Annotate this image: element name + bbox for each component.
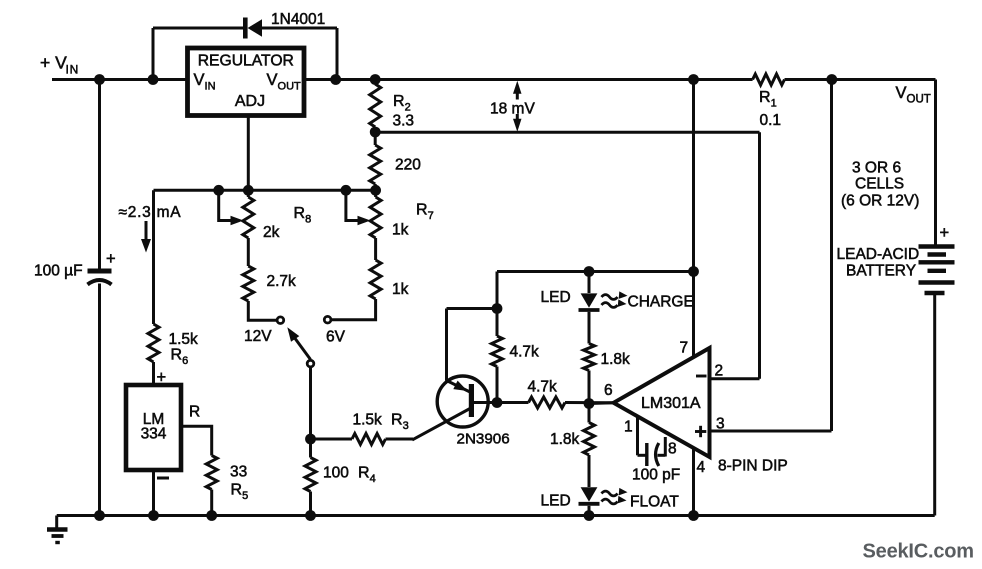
label 3 OR 6 <box>852 160 901 177</box>
ground symbol stub <box>55 516 58 530</box>
junction base / 4.7k pull-up <box>492 397 503 408</box>
wire R8-2.7k link <box>247 238 250 266</box>
battery BT1 plate short 3 <box>925 291 945 295</box>
svg-text:SeekIC.com: SeekIC.com <box>863 541 974 563</box>
wire diode bypass top right segment <box>262 27 338 30</box>
regulator pin VIN label <box>194 71 216 93</box>
svg-text:BATTERY: BATTERY <box>846 262 916 279</box>
svg-text:0.1: 0.1 <box>760 112 782 129</box>
wire pin3 riser <box>830 80 833 432</box>
LED D3 float cathode bar <box>579 502 600 506</box>
label R6 <box>171 347 189 368</box>
svg-text:3.3: 3.3 <box>393 113 415 130</box>
battery BT1 plate long 3 <box>919 280 955 284</box>
wire main rail to battery corner <box>785 78 936 81</box>
wire 1k to 6V terminal <box>332 299 376 320</box>
terminal 12V <box>277 317 284 324</box>
op-amp plus input mark <box>695 426 706 437</box>
label pin 6 <box>604 382 613 399</box>
label R8 <box>294 205 312 226</box>
potentiometer R7 1k element <box>370 190 381 238</box>
capacitor C2 100pF left plate <box>645 443 648 466</box>
svg-text:CELLS: CELLS <box>855 176 904 193</box>
wire LED charge anode link <box>588 272 591 294</box>
svg-text:CHARGE: CHARGE <box>628 294 694 311</box>
svg-text:1k: 1k <box>392 222 409 239</box>
wire 2.7k to 12V terminal <box>248 301 276 320</box>
terminal 6V <box>324 316 331 323</box>
wire regulator ADJ pin drop <box>247 116 250 191</box>
wire LM334 branch upper <box>152 190 155 324</box>
transistor Q1 emitter segment <box>447 381 471 393</box>
label 4.7k base <box>528 379 558 396</box>
svg-text:1.8k: 1.8k <box>550 431 580 448</box>
svg-text:1.5k: 1.5k <box>353 411 383 428</box>
svg-text:1.5k: 1.5k <box>169 331 199 348</box>
wire R5 to ground rail <box>210 490 213 516</box>
potentiometer R8 wiper arm <box>219 190 244 225</box>
wire base resistor to node6 <box>565 401 614 404</box>
resistor 220 element <box>370 145 381 184</box>
junction main rail / diode bypass riser <box>148 74 159 85</box>
svg-text:1N4001: 1N4001 <box>271 11 325 28</box>
capacitor C1 100uF curved plate <box>88 280 112 285</box>
wire battery positive drop <box>934 80 937 247</box>
label CELLS <box>855 176 904 193</box>
node +VIN input terminal label <box>40 53 79 77</box>
wire emitter riser <box>445 309 448 381</box>
dimension arrow 18 mV down <box>513 114 522 132</box>
capacitor C2 100pF right plate <box>656 443 659 466</box>
junction ground rail / left rail <box>94 510 105 521</box>
label 33 <box>230 463 247 480</box>
label LM334 minus pin <box>157 477 169 480</box>
wire diode bypass riser <box>152 28 155 80</box>
label 6V <box>326 329 346 346</box>
svg-text:R: R <box>189 404 200 421</box>
label LED float <box>541 493 571 510</box>
transistor Q1 emitter arrow <box>453 381 467 391</box>
switch SW1 arm <box>287 327 310 359</box>
label 334 <box>141 426 167 443</box>
wire diode bypass right drop <box>336 28 339 80</box>
label 100 pF <box>632 467 680 484</box>
resistor 1.8k upper element <box>584 344 595 371</box>
annotation current arrow <box>141 221 151 253</box>
svg-text:2k: 2k <box>263 224 280 241</box>
svg-text:LED: LED <box>541 493 571 510</box>
svg-text:4.7k: 4.7k <box>528 379 558 396</box>
svg-text:220: 220 <box>395 157 421 174</box>
wire main rail regulator output segment <box>304 78 753 81</box>
wire LED float to ground rail <box>588 506 591 516</box>
junction main rail / pin3 riser <box>826 74 837 85</box>
svg-text:1.8k: 1.8k <box>601 351 631 368</box>
svg-text:100 pF: 100 pF <box>632 467 680 484</box>
wire ground rail <box>57 514 935 517</box>
wire 1.8k lower to LED float <box>588 455 591 487</box>
resistor 2.7k element <box>243 266 254 301</box>
svg-text:8-PIN DIP: 8-PIN DIP <box>718 458 788 475</box>
LED D2 light arrows <box>602 291 628 307</box>
LED D3 float body <box>581 487 598 501</box>
LED D2 charge cathode bar <box>579 308 600 312</box>
resistor R5 33 element <box>206 456 217 490</box>
label 1.8k upper <box>601 351 631 368</box>
label R5 <box>231 482 249 503</box>
LED D3 light arrows <box>602 488 628 504</box>
resistor 1.8k lower element <box>584 423 595 456</box>
svg-text:1k: 1k <box>392 281 409 298</box>
wire Q1 base lead <box>474 401 529 404</box>
svg-text:2N3906: 2N3906 <box>457 431 510 448</box>
label pin 8 <box>668 441 677 458</box>
label 1N4001 <box>271 11 325 28</box>
label 100 uF <box>34 263 83 280</box>
resistor R3 1.5k element <box>352 434 386 445</box>
op-amp minus input mark <box>696 375 707 378</box>
label 3.3 <box>393 113 415 130</box>
svg-text:LED: LED <box>541 289 571 306</box>
wire pin8 stub <box>658 437 666 457</box>
label pin 3 <box>716 416 725 433</box>
resistor R1 0.1 element <box>753 74 785 85</box>
wire pin3 stub <box>710 430 832 433</box>
label 2k <box>263 224 280 241</box>
label 12V <box>244 328 272 345</box>
wire diode bypass top left segment <box>153 27 245 30</box>
current source U2 LM334 box <box>126 385 181 470</box>
label LM334 plus pin <box>157 369 167 387</box>
resistor R2 3.3 element <box>370 84 381 127</box>
wire LM334 R pin <box>181 426 212 455</box>
wire R3 to collector <box>386 409 471 440</box>
junction main rail / V+ riser <box>688 74 699 85</box>
watermark SeekIC.com <box>863 541 974 563</box>
junction pin4 / ground rail <box>688 510 699 521</box>
potentiometer R7 wiper arm <box>346 190 371 225</box>
wire V+ top mid rail <box>497 270 694 273</box>
label BATTERY <box>846 262 916 279</box>
wire 4.7k pull-up upper link <box>496 309 499 337</box>
junction R3/R4 node <box>305 434 316 445</box>
switch SW1 pole terminal <box>307 360 314 367</box>
svg-text:≈2.3 mA: ≈2.3 mA <box>119 204 182 221</box>
regulator U1 box <box>188 48 305 116</box>
wire 18mV sense line <box>375 131 759 134</box>
junction wiper rail / R7 wiper <box>341 185 352 196</box>
junction main rail / left filter-cap rail <box>94 74 105 85</box>
svg-text:4.7k: 4.7k <box>510 344 540 361</box>
wire 1.8k to node6 <box>588 371 591 404</box>
wire left rail upper <box>98 80 101 269</box>
wire switch pole drop <box>309 368 312 439</box>
label pin 2 <box>715 363 724 380</box>
label LM334 R pin <box>189 404 200 421</box>
label 0.1 <box>760 112 782 129</box>
svg-text:FLOAT: FLOAT <box>630 494 679 511</box>
label R3 <box>391 411 409 432</box>
svg-text:LEAD-ACID: LEAD-ACID <box>837 246 920 263</box>
svg-text:ADJ: ADJ <box>235 93 265 110</box>
label LEAD-ACID <box>837 246 920 263</box>
svg-text:IN: IN <box>66 63 80 77</box>
svg-text:12V: 12V <box>244 328 272 345</box>
label 220 <box>395 157 421 174</box>
resistor 1k lower element <box>370 260 381 299</box>
wire pin1 stub <box>638 417 647 455</box>
wire node6 to 1.8k lower <box>588 404 591 423</box>
svg-text:(6 OR 12V): (6 OR 12V) <box>841 193 919 210</box>
diode D1 1N4001 body <box>248 19 262 37</box>
label 1.8k lower <box>550 431 580 448</box>
resistor 4.7k base element <box>529 397 566 408</box>
dimension arrow 18 mV up <box>513 81 522 100</box>
label 6 OR 12V <box>841 193 919 210</box>
junction main rail / R2 top <box>370 74 381 85</box>
annotation current 2.3 mA label <box>119 204 182 221</box>
junction wiper rail / R8 wiper <box>213 185 224 196</box>
wire node6 to op-amp output <box>589 401 614 405</box>
label 1k upper <box>392 222 409 239</box>
junction V+ riser / top mid rail <box>688 266 699 277</box>
junction wiper rail / ADJ <box>243 185 254 196</box>
op-amp U3 LM301A body <box>614 348 710 457</box>
label R2 <box>393 93 411 114</box>
svg-text:7: 7 <box>680 340 689 357</box>
label REGULATOR <box>198 53 294 70</box>
svg-text:REGULATOR: REGULATOR <box>198 53 294 70</box>
wire R2-220 link <box>374 127 377 145</box>
potentiometer R8 2k element <box>243 190 254 238</box>
wire R6 to LM334 <box>152 362 155 385</box>
wire emitter to bias node <box>447 307 498 310</box>
transistor Q1 base bar <box>469 384 474 417</box>
svg-text:6: 6 <box>604 382 613 399</box>
svg-text:334: 334 <box>141 426 167 443</box>
junction R2 bottom / sense wire <box>370 127 381 138</box>
label CHARGE <box>628 294 694 311</box>
junction ground rail / LM334 <box>148 510 159 521</box>
battery BT1 plate long 2 <box>919 260 955 264</box>
junction ground rail / LED float <box>584 510 595 521</box>
label 2.7k <box>267 273 297 290</box>
label R4 <box>358 464 376 485</box>
svg-text:2: 2 <box>715 363 724 380</box>
label R1 <box>759 89 777 110</box>
wire left rail lower <box>98 284 101 516</box>
junction emitter bias node <box>492 303 503 314</box>
LED D2 charge body <box>581 293 598 307</box>
label pin 1 <box>624 419 633 436</box>
wire pin7 V+ riser <box>692 80 695 357</box>
svg-text:2.7k: 2.7k <box>267 273 297 290</box>
svg-text:100: 100 <box>323 464 349 481</box>
label LM301A <box>641 395 701 412</box>
resistor 4.7k pull-up element <box>492 336 503 367</box>
battery BT1 plate long 1 <box>919 244 955 248</box>
label 8-PIN DIP <box>718 458 788 475</box>
wire LED charge to 1.8k <box>588 312 591 344</box>
resistor R4 100 element <box>305 458 316 492</box>
battery BT1 plate short 1 <box>928 252 947 256</box>
label 1.5k R6 <box>169 331 199 348</box>
svg-text:+: + <box>106 250 116 268</box>
wire 220 to wiper rail <box>374 184 377 190</box>
svg-text:LM301A: LM301A <box>641 395 701 412</box>
wire node to R4 <box>309 439 312 458</box>
label VOUT <box>896 84 931 106</box>
wire battery negative drop <box>933 293 936 516</box>
capacitor C1 100uF plus plate <box>88 269 112 274</box>
svg-text:100 µF: 100 µF <box>34 263 83 280</box>
junction regulator output / diode return <box>330 74 341 85</box>
label pin 4 <box>697 459 706 476</box>
wire 4.7k pull-up lower link <box>496 367 499 403</box>
label 2N3906 <box>457 431 510 448</box>
wire R4 to ground rail <box>309 492 312 516</box>
svg-text:33: 33 <box>230 463 247 480</box>
label R7 <box>416 202 434 223</box>
svg-text:+: + <box>940 224 950 242</box>
wire node to R3 <box>311 438 353 441</box>
svg-text:6V: 6V <box>326 329 346 346</box>
junction node 6 <box>584 398 595 409</box>
wire pin4 ground drop <box>692 448 695 515</box>
label LM <box>143 411 165 428</box>
wire wiper rail <box>154 189 376 192</box>
label 18 mV <box>490 101 535 118</box>
ground symbol bar 1 <box>47 527 68 531</box>
ground symbol bar 2 <box>52 534 64 538</box>
svg-text:+ V: + V <box>40 53 67 73</box>
regulator pin ADJ label <box>235 93 265 110</box>
wire V+ branch corner <box>496 272 499 309</box>
wire main VIN rail left segment <box>52 78 188 81</box>
battery BT1 plate short 2 <box>928 269 947 273</box>
label LED charge <box>541 289 571 306</box>
wire LM334 minus to ground rail <box>152 470 155 516</box>
label pin 7 <box>680 340 689 357</box>
regulator pin VOUT label <box>267 71 302 93</box>
label 100 <box>323 464 349 481</box>
svg-text:8: 8 <box>668 441 677 458</box>
label C1 plus <box>106 250 116 268</box>
junction ground rail / R4 <box>305 510 316 521</box>
transistor Q1 2N3906 body circle <box>437 376 488 427</box>
wire R7-1k link <box>374 238 377 260</box>
svg-text:1: 1 <box>624 419 633 436</box>
label battery plus <box>940 224 950 242</box>
resistor R6 1.5k element <box>148 324 159 362</box>
ground symbol bar 3 <box>55 541 60 544</box>
svg-text:3 OR 6: 3 OR 6 <box>852 160 901 177</box>
junction wiper rail / R7 top <box>370 185 381 196</box>
svg-text:18 mV: 18 mV <box>490 101 535 118</box>
junction ground rail / R5 <box>206 510 217 521</box>
junction top mid rail / LED charge <box>584 266 595 277</box>
wire pin2 riser <box>758 132 761 378</box>
diode D1 1N4001 cathode bar <box>243 18 248 39</box>
label FLOAT <box>630 494 679 511</box>
label 4.7k pull-up <box>510 344 540 361</box>
svg-text:4: 4 <box>697 459 706 476</box>
label 1k lower <box>392 281 409 298</box>
label 1.5k R3 <box>353 411 383 428</box>
wire pin2 stub <box>710 377 760 380</box>
